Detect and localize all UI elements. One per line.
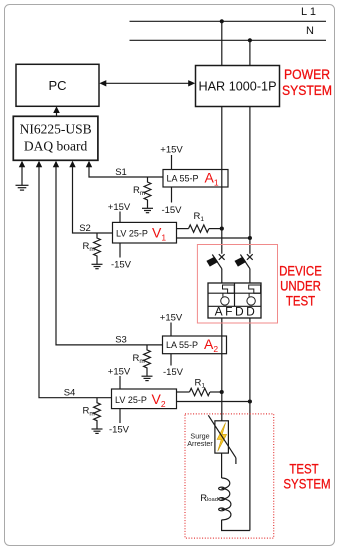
HAR 1000-1P box bbox=[196, 66, 280, 107]
wire S2 bbox=[73, 167, 113, 234]
svg-text:TEST: TEST bbox=[289, 460, 318, 476]
wire double arrow PC-HAR bbox=[99, 80, 195, 86]
svg-text:AFDD: AFDD bbox=[215, 304, 258, 318]
DUT enclosure red box bbox=[197, 245, 277, 324]
wire +15V stub (A1) bbox=[171, 155, 173, 170]
wire main L conductor HAR to breaker bbox=[221, 106, 223, 254]
arrow into DAQ pin1 bbox=[19, 161, 25, 168]
wire ground branch bbox=[21, 167, 23, 186]
wire V2 low to N line bbox=[177, 401, 250, 403]
wire S4 bbox=[39, 167, 112, 398]
breaker pole 1 bbox=[206, 254, 224, 283]
NI6225-USB DAQ board box bbox=[13, 116, 98, 160]
svg-text:+15V: +15V bbox=[160, 145, 183, 156]
svg-text:DAQ board: DAQ board bbox=[24, 139, 88, 154]
svg-text:NI6225-USB: NI6225-USB bbox=[20, 122, 92, 137]
arrow into DAQ pin2 bbox=[36, 161, 42, 168]
arrow into DAQ pin3 bbox=[53, 161, 59, 168]
wire -15V stub (A2) bbox=[170, 354, 172, 366]
wire -15V stub (V1) bbox=[119, 243, 121, 258]
resistor Rm (S2) bbox=[94, 233, 101, 264]
svg-text:LA 55-P: LA 55-P bbox=[166, 340, 198, 350]
wire -15V stub (A1) bbox=[171, 187, 173, 203]
breaker pole 2 bbox=[235, 254, 253, 283]
wire +15V stub (V1) bbox=[119, 212, 121, 223]
current sensor LA 55-P (A2) bbox=[163, 336, 227, 354]
wire -15V stub (V2) bbox=[119, 409, 121, 423]
svg-text:LV 25-P: LV 25-P bbox=[115, 395, 147, 405]
resistor Rm (S3) bbox=[144, 345, 151, 376]
wire +15V stub (V2) bbox=[119, 376, 121, 389]
resistor Rm (S4) bbox=[94, 398, 101, 429]
svg-text:PC: PC bbox=[48, 78, 66, 93]
wire main N conductor AFDD to bottom bbox=[249, 318, 251, 531]
wire +15V stub (A2) bbox=[170, 323, 172, 337]
wire V1 low to N line bbox=[177, 237, 250, 239]
wire main L conductor AFDD to bottom bbox=[221, 318, 223, 421]
wire from N to HAR bbox=[249, 40, 251, 65]
inductor R load coil bbox=[219, 478, 231, 520]
svg-text:+15V: +15V bbox=[108, 366, 131, 377]
resistor R1 (V2 row) bbox=[177, 388, 222, 395]
svg-text:TEST: TEST bbox=[286, 293, 315, 309]
junction R1-line L (V2) bbox=[220, 390, 224, 394]
ground (S2 Rm) bbox=[92, 264, 103, 268]
svg-text:Arrester: Arrester bbox=[187, 439, 213, 448]
ground (S4 Rm) bbox=[92, 429, 103, 433]
surge arrester varistor bbox=[208, 415, 236, 464]
svg-text:S3: S3 bbox=[115, 335, 127, 346]
wire varistor to coil bbox=[221, 453, 223, 478]
svg-text:-15V: -15V bbox=[111, 259, 132, 270]
junction V2 low on N bbox=[248, 399, 252, 403]
svg-text:POWER: POWER bbox=[284, 66, 330, 82]
svg-text:-15V: -15V bbox=[109, 424, 130, 435]
svg-text:L 1: L 1 bbox=[301, 6, 316, 18]
junction V1 low on N bbox=[248, 236, 252, 240]
AFDD module bbox=[208, 283, 261, 318]
wire arrow DAQ to PC bbox=[53, 106, 60, 116]
ground under DAQ bbox=[16, 185, 29, 190]
voltage sensor LV 25-P (V1) bbox=[113, 222, 177, 243]
svg-text:HAR 1000-1P: HAR 1000-1P bbox=[199, 80, 277, 94]
svg-text:DEVICE: DEVICE bbox=[279, 262, 322, 278]
resistor R1 (V1 row) bbox=[177, 225, 222, 232]
svg-text:S2: S2 bbox=[79, 223, 91, 234]
svg-text:SYSTEM: SYSTEM bbox=[282, 82, 332, 98]
TEST SYSTEM label bbox=[283, 460, 330, 492]
svg-text:-15V: -15V bbox=[161, 205, 182, 216]
TEST SYSTEM enclosure dotted box bbox=[185, 414, 274, 538]
arrow into DAQ pin5 bbox=[86, 161, 92, 168]
voltage sensor LV 25-P (V2) bbox=[112, 389, 177, 409]
resistor Rm (S1) bbox=[144, 177, 151, 208]
svg-text:-15V: -15V bbox=[163, 367, 184, 378]
wire from L1 to HAR bbox=[221, 21, 223, 65]
wire S3 bbox=[56, 167, 163, 345]
node N wire bbox=[130, 39, 327, 41]
current sensor LA 55-P (A1) bbox=[163, 170, 228, 188]
svg-text:+15V: +15V bbox=[160, 313, 183, 324]
wire coil to bottom bbox=[222, 520, 250, 531]
junction on L1 bbox=[220, 19, 224, 23]
svg-text:+15V: +15V bbox=[108, 202, 131, 213]
PC box bbox=[16, 64, 99, 106]
svg-text:SYSTEM: SYSTEM bbox=[283, 476, 330, 492]
wire L1 line bbox=[130, 20, 327, 22]
POWER SYSTEM label bbox=[282, 66, 332, 98]
arrow into DAQ pin4 bbox=[69, 161, 75, 168]
svg-text:UNDER: UNDER bbox=[280, 277, 321, 293]
svg-text:LV 25-P: LV 25-P bbox=[116, 229, 148, 239]
svg-text:N: N bbox=[306, 25, 314, 37]
svg-text:S1: S1 bbox=[115, 167, 127, 178]
wire S1 bbox=[89, 167, 163, 178]
svg-text:load: load bbox=[207, 497, 218, 503]
ground (S3 Rm) bbox=[142, 376, 153, 380]
junction on N bbox=[248, 38, 252, 42]
junction R1-line L (V1) bbox=[220, 227, 224, 231]
DEVICE UNDER TEST label bbox=[279, 262, 322, 309]
wire main N conductor HAR to breaker bbox=[249, 106, 251, 254]
svg-text:LA 55-P: LA 55-P bbox=[167, 174, 199, 184]
svg-text:S4: S4 bbox=[64, 388, 76, 399]
ground (S1 Rm) bbox=[142, 208, 153, 212]
